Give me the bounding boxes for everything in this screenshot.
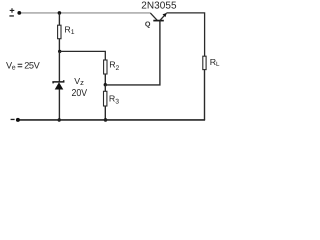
wire: node B to transistor base — [105, 21, 160, 85]
svg-text:20V: 20V — [72, 88, 88, 99]
node B: R2 / R3 / base junction — [104, 83, 107, 86]
wire: R1 top lead — [58, 13, 60, 26]
node: R1 top junction — [58, 11, 62, 15]
wire: top rail left (terminal to collector) — [19, 12, 150, 14]
resistor RL — [203, 56, 206, 69]
wire: RL bottom lead — [204, 70, 206, 120]
transistor Q emitter arrow — [163, 13, 167, 17]
resistor R3 — [104, 91, 107, 106]
wire: bottom rail — [18, 119, 205, 121]
minus symbol under plus — [9, 15, 14, 16]
svg-text:2N3055: 2N3055 — [141, 1, 177, 12]
node: R3 bottom junction on bottom rail — [104, 118, 108, 122]
node: - input terminal — [16, 118, 20, 122]
transistor Q collector diagonal — [150, 13, 157, 20]
svg-text:Q: Q — [145, 19, 151, 28]
wire: R3 bottom lead — [104, 106, 106, 120]
zener diode DZ cathode bar — [53, 80, 64, 83]
minus symbol of bottom terminal — [11, 119, 15, 120]
node: zener bottom junction on bottom rail — [58, 118, 61, 121]
node: + input terminal — [17, 11, 21, 15]
transistor Q emitter diagonal — [160, 13, 167, 20]
plus symbol of source terminal — [10, 8, 15, 13]
resistor R1 — [58, 25, 61, 39]
wire: zener top lead — [58, 51, 60, 81]
wire: R2 bottom lead — [104, 74, 106, 85]
wire: R3 top lead — [104, 85, 106, 92]
resistor R2 — [104, 60, 107, 74]
wire: R1 bottom lead — [58, 39, 60, 52]
zener diode DZ anode triangle — [55, 82, 64, 89]
wire: connector node A to R2 top — [59, 51, 105, 60]
node A: R1 / zener / R2 junction — [58, 50, 61, 53]
wire: zener bottom lead — [58, 90, 60, 121]
svg-text:Ve = 25V: Ve = 25V — [6, 60, 41, 71]
svg-text:Vz: Vz — [74, 76, 84, 87]
wire: top rail right (emitter to RL) — [166, 13, 204, 56]
transistor Q base bar — [153, 20, 164, 22]
